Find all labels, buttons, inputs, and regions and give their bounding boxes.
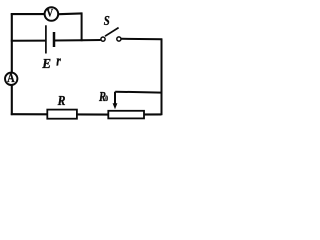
rheostat R0 box: [108, 111, 144, 119]
wire battery row left of battery: [11, 40, 46, 42]
svg-text:A: A: [7, 71, 15, 85]
wire switch to right corner: [121, 38, 162, 40]
switch lever: [105, 28, 119, 37]
wire drop from top corner to battery row: [81, 12, 83, 41]
rheostat slider arrowhead: [113, 103, 118, 109]
switch right contact circle: [117, 37, 121, 41]
voltmeter V: [45, 6, 59, 21]
switch left contact circle: [101, 37, 105, 41]
rheostat slider arrow shaft: [114, 92, 116, 105]
wire battery row right of battery: [54, 39, 101, 42]
svg-text:0: 0: [105, 94, 108, 103]
battery long plate: [45, 25, 47, 53]
svg-text:r: r: [56, 54, 61, 70]
svg-text:E: E: [41, 57, 51, 72]
wire top run to voltmeter and on to corner: [11, 12, 82, 15]
svg-text:V: V: [47, 6, 54, 20]
svg-text:S: S: [104, 14, 110, 29]
resistor R box: [47, 110, 77, 119]
wire bottom: [11, 113, 162, 116]
svg-text:R: R: [57, 94, 66, 109]
wire right vertical: [161, 39, 163, 115]
battery short thick plate: [53, 32, 56, 47]
ammeter A: [5, 71, 17, 85]
wire rheostat slider feed: [115, 91, 161, 94]
wire left vertical: [11, 13, 13, 115]
